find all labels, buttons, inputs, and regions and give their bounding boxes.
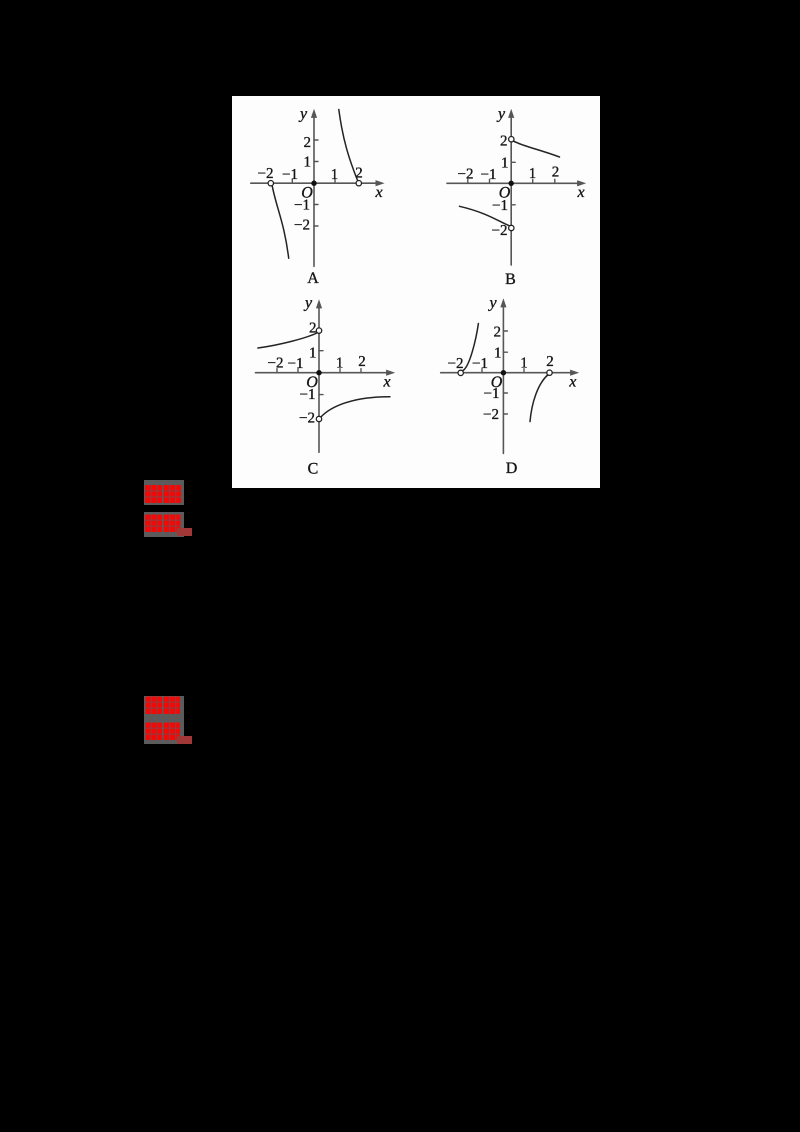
svg-text:1: 1 xyxy=(304,155,312,171)
svg-text:D: D xyxy=(506,460,518,477)
svg-text:−1: −1 xyxy=(481,167,497,183)
svg-text:2: 2 xyxy=(500,134,508,150)
panel C y-axis arrowhead xyxy=(316,299,322,308)
panel B origin dot xyxy=(509,181,514,186)
panel B axis ticks xyxy=(468,162,555,205)
svg-text:−2: −2 xyxy=(448,356,464,372)
svg-text:x: x xyxy=(382,374,390,391)
svg-text:−2: −2 xyxy=(258,166,274,182)
panel B open circle at (0,2) xyxy=(509,137,514,142)
panel C x-axis xyxy=(256,372,392,374)
panel C axis ticks xyxy=(277,351,361,395)
svg-text:2: 2 xyxy=(309,321,317,337)
svg-text:−2: −2 xyxy=(299,411,315,427)
panel B curve upper branch xyxy=(514,141,560,157)
panel B curve lower branch xyxy=(460,206,510,226)
panel C origin dot xyxy=(316,370,321,375)
svg-text:1: 1 xyxy=(494,346,502,362)
red heading pair 2 xyxy=(144,696,184,744)
svg-text:−2: −2 xyxy=(268,355,284,371)
panel A open circle at (-2,0) xyxy=(268,181,273,186)
svg-text:x: x xyxy=(374,184,382,201)
panel D open circle at (2,0) xyxy=(547,370,552,375)
panel B y-axis arrowhead xyxy=(508,109,514,118)
panel D x-axis arrowhead xyxy=(570,370,579,376)
panel C curve upper branch xyxy=(258,333,317,348)
panel B open circle at (0,-2) xyxy=(509,225,514,230)
panel C open circle at (0,2) xyxy=(316,328,321,333)
panel D x-axis xyxy=(441,372,576,374)
panel D axis ticks xyxy=(482,331,524,414)
panel A open circle at (2,0) xyxy=(356,181,361,186)
panel D y-axis arrowhead xyxy=(500,298,506,307)
svg-text:−2: −2 xyxy=(294,218,310,234)
svg-text:1: 1 xyxy=(520,355,528,371)
panel C y-axis xyxy=(318,303,320,452)
svg-text:A: A xyxy=(307,270,319,287)
svg-text:y: y xyxy=(303,295,313,312)
svg-text:y: y xyxy=(298,106,308,123)
panel D curve left branch xyxy=(463,324,479,371)
svg-text:2: 2 xyxy=(494,325,502,341)
svg-text:−2: −2 xyxy=(492,223,508,239)
panel D curve right branch xyxy=(530,375,548,422)
svg-text:−2: −2 xyxy=(483,407,499,423)
panel D y-axis xyxy=(502,302,504,453)
panel C curve lower branch xyxy=(321,397,390,417)
svg-text:1: 1 xyxy=(336,355,344,371)
svg-text:1: 1 xyxy=(331,167,339,183)
panel A curve left branch xyxy=(272,186,289,258)
red answer heading 1 xyxy=(144,480,184,505)
dark red mark 1 xyxy=(177,528,193,536)
svg-text:2: 2 xyxy=(355,166,363,182)
svg-text:B: B xyxy=(505,271,516,288)
panel A x-axis arrowhead xyxy=(376,180,385,186)
svg-text:−1: −1 xyxy=(472,356,488,372)
panel A y-axis xyxy=(313,113,315,267)
panel A axis ticks xyxy=(292,140,335,226)
panel D open circle at (-2,0) xyxy=(458,370,463,375)
red analysis heading 1 xyxy=(144,512,184,537)
svg-text:x: x xyxy=(568,374,576,391)
panel C x-axis arrowhead xyxy=(386,370,395,376)
panel B x-axis xyxy=(447,182,583,184)
svg-text:2: 2 xyxy=(552,165,560,181)
svg-text:1: 1 xyxy=(501,156,509,172)
panel B x-axis arrowhead xyxy=(577,180,586,186)
panel A origin dot xyxy=(311,181,316,186)
svg-text:−1: −1 xyxy=(288,356,304,372)
svg-text:y: y xyxy=(487,295,497,312)
panel A curve right branch xyxy=(339,110,358,181)
svg-text:1: 1 xyxy=(309,346,317,362)
svg-text:y: y xyxy=(496,106,506,123)
svg-text:1: 1 xyxy=(529,166,537,182)
panel B y-axis xyxy=(510,113,512,266)
svg-text:2: 2 xyxy=(304,135,312,151)
dark red mark 2 xyxy=(177,736,192,744)
svg-text:−1: −1 xyxy=(484,386,500,402)
panel C open circle at (0,-2) xyxy=(316,416,321,421)
panel A x-axis xyxy=(251,182,381,184)
svg-text:−1: −1 xyxy=(300,387,316,403)
white figure box with four graphs xyxy=(232,96,600,488)
svg-text:−1: −1 xyxy=(492,198,508,214)
panel A y-axis arrowhead xyxy=(311,109,317,118)
svg-text:−2: −2 xyxy=(458,167,474,183)
panel D origin dot xyxy=(501,370,506,375)
svg-text:−1: −1 xyxy=(282,167,298,183)
svg-text:2: 2 xyxy=(358,354,366,370)
svg-text:−1: −1 xyxy=(294,198,310,214)
svg-text:C: C xyxy=(308,461,319,478)
svg-text:2: 2 xyxy=(546,354,554,370)
svg-text:x: x xyxy=(576,184,584,201)
